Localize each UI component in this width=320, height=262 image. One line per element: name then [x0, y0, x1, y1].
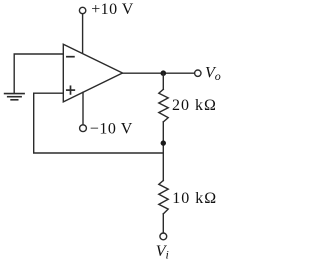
wire output — [123, 72, 195, 74]
terminal Vo — [195, 70, 201, 76]
wire R1 bottom to junction — [162, 122, 164, 181]
wire inverting input — [14, 54, 63, 93]
terminal +10V — [79, 7, 85, 13]
wire R2 bottom to Vi terminal — [162, 214, 164, 233]
svg-text:+10 V: +10 V — [91, 1, 134, 18]
op-amp plus label — [67, 86, 75, 94]
wire output node to resistor R1 — [162, 73, 164, 89]
node output junction — [161, 70, 167, 76]
ground — [5, 94, 25, 100]
node feedback junction — [161, 140, 166, 145]
wire -10V supply from op-amp bottom — [82, 92, 84, 124]
terminal -10V — [80, 125, 87, 132]
svg-text:−10 V: −10 V — [90, 121, 133, 138]
svg-text:Vi: Vi — [156, 243, 169, 262]
svg-text:Vo: Vo — [205, 64, 221, 83]
svg-text:10 kΩ: 10 kΩ — [172, 190, 217, 207]
resistor R1 20k zigzag — [159, 89, 168, 122]
terminal Vi — [160, 233, 167, 240]
resistor R2 10k zigzag — [159, 181, 168, 214]
wire noninverting input feedback — [34, 93, 164, 153]
op-amp U1 — [63, 44, 122, 102]
svg-text:20 kΩ: 20 kΩ — [172, 97, 217, 114]
wire +10V supply to op-amp top — [82, 14, 84, 54]
op-amp minus label — [67, 56, 74, 58]
